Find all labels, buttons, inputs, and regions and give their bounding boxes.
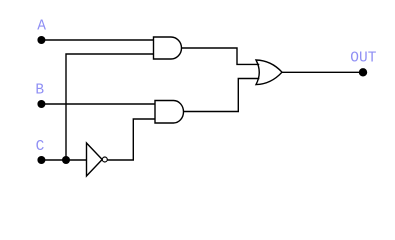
wire OR output to OUT terminal xyxy=(282,71,359,73)
wire AND1 output to OR top input xyxy=(182,48,260,64)
wire NOT output to AND2 bottom input xyxy=(107,119,155,160)
wire B to AND2 top input xyxy=(41,103,155,105)
svg-text:OUT: OUT xyxy=(350,51,376,67)
wire C to NOT input xyxy=(41,159,87,161)
node B terminal dot xyxy=(37,100,45,108)
node OUT terminal dot xyxy=(359,68,367,76)
and-gate U2 xyxy=(155,101,184,124)
wire AND2 output to OR bottom input xyxy=(184,79,260,112)
junction on node C xyxy=(62,156,70,164)
label OUT xyxy=(350,51,376,67)
label A xyxy=(37,19,46,35)
wire C branch to AND1 bottom input xyxy=(66,54,154,160)
label C xyxy=(36,139,45,155)
or-gate U3 xyxy=(256,60,282,85)
inverter U4 xyxy=(87,143,108,176)
svg-text:B: B xyxy=(35,83,44,99)
svg-text:A: A xyxy=(37,19,46,35)
label B xyxy=(35,83,44,99)
node C terminal dot xyxy=(37,156,45,164)
svg-text:C: C xyxy=(36,139,45,155)
node A terminal dot xyxy=(37,36,45,44)
wire A to AND1 top input xyxy=(41,39,154,41)
and-gate U1 xyxy=(154,37,182,59)
